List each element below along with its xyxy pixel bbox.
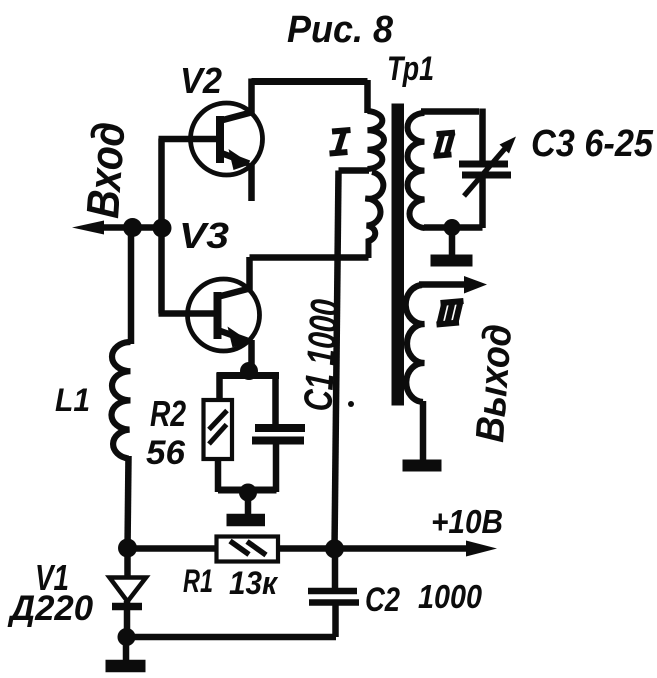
wire R2C1 top rail: [217, 372, 280, 379]
wire V3 base lead: [159, 310, 217, 317]
resistor R2: [204, 400, 233, 459]
winding III label: [437, 301, 464, 325]
node junction dot diode/bottom rail: [118, 628, 136, 646]
svg-text:56: 56: [146, 434, 186, 472]
svg-text:Тр1: Тр1: [387, 50, 434, 88]
output arrow: [419, 281, 467, 288]
wire V2 base lead: [159, 136, 221, 143]
svg-text:V2: V2: [180, 60, 222, 101]
svg-text:Рис. 8: Рис. 8: [287, 9, 394, 51]
resistor R1: [217, 537, 279, 562]
node junction dot input/L1: [123, 218, 142, 237]
capacitor C2: [332, 549, 339, 589]
svg-text:V3: V3: [179, 215, 229, 256]
wire R2 bottom stub: [215, 458, 222, 492]
svg-text:1000: 1000: [418, 578, 483, 615]
wire R2 top stub: [216, 373, 223, 401]
input arrow: [98, 224, 162, 231]
wire L1 top lead: [128, 227, 135, 344]
wire R2C1 bottom rail: [218, 487, 277, 494]
svg-text:13к: 13к: [229, 565, 279, 601]
svg-text:С1 1000: С1 1000: [296, 298, 348, 413]
wire center tap: [339, 167, 370, 174]
svg-text:С3 6-25: С3 6-25: [531, 123, 654, 165]
diode V1: [124, 548, 131, 578]
winding I top lead: [364, 80, 371, 113]
wire winding III bottom lead: [420, 401, 427, 461]
winding II: [408, 113, 425, 228]
winding I top section: [368, 111, 384, 169]
node junction dot winding II gnd: [444, 219, 461, 236]
svg-text:+10В: +10В: [431, 503, 503, 540]
transformer core: [392, 104, 405, 406]
ground main: [123, 637, 130, 662]
winding I bottom section: [366, 172, 384, 258]
svg-text:Выход: Выход: [468, 323, 520, 444]
wire +10V rail: [128, 545, 469, 552]
wire winding II top: [421, 108, 479, 115]
ground R2C1: [245, 494, 252, 515]
node junction dot R2C1 gnd: [239, 484, 257, 502]
wire C3 bottom: [479, 177, 486, 228]
winding II label: [434, 133, 456, 157]
svg-text:R2: R2: [150, 393, 186, 434]
svg-text:Д220: Д220: [7, 589, 94, 628]
svg-text:С2: С2: [365, 581, 400, 619]
node junction dot V3 emitter: [240, 362, 258, 380]
transistor V2: [191, 103, 263, 175]
wire base line vertical: [158, 139, 165, 314]
stray ink dot: [348, 401, 354, 407]
ground winding III: [403, 460, 442, 472]
wire bottom rail: [127, 634, 337, 641]
wire V3 collector to primary bottom: [250, 254, 369, 261]
inductor L1: [112, 342, 131, 459]
node junction dot input/base: [153, 219, 172, 238]
capacitor C1: [272, 373, 279, 425]
winding I label: [330, 130, 351, 154]
svg-text:Вход: Вход: [76, 120, 135, 219]
wire L1 bottom lead: [128, 456, 129, 549]
ground winding II: [449, 229, 456, 255]
wire long vertical to +10V: [335, 171, 339, 550]
capacitor C3 variable: [459, 161, 508, 168]
node junction dot L1/diode/rail: [118, 539, 137, 558]
winding III: [406, 285, 425, 402]
svg-text:L1: L1: [55, 382, 90, 418]
node junction dot rail/C2: [325, 539, 344, 558]
svg-text:R1: R1: [183, 563, 213, 599]
transistor V3: [188, 279, 260, 351]
wire V2 collector to transformer: [252, 78, 368, 85]
